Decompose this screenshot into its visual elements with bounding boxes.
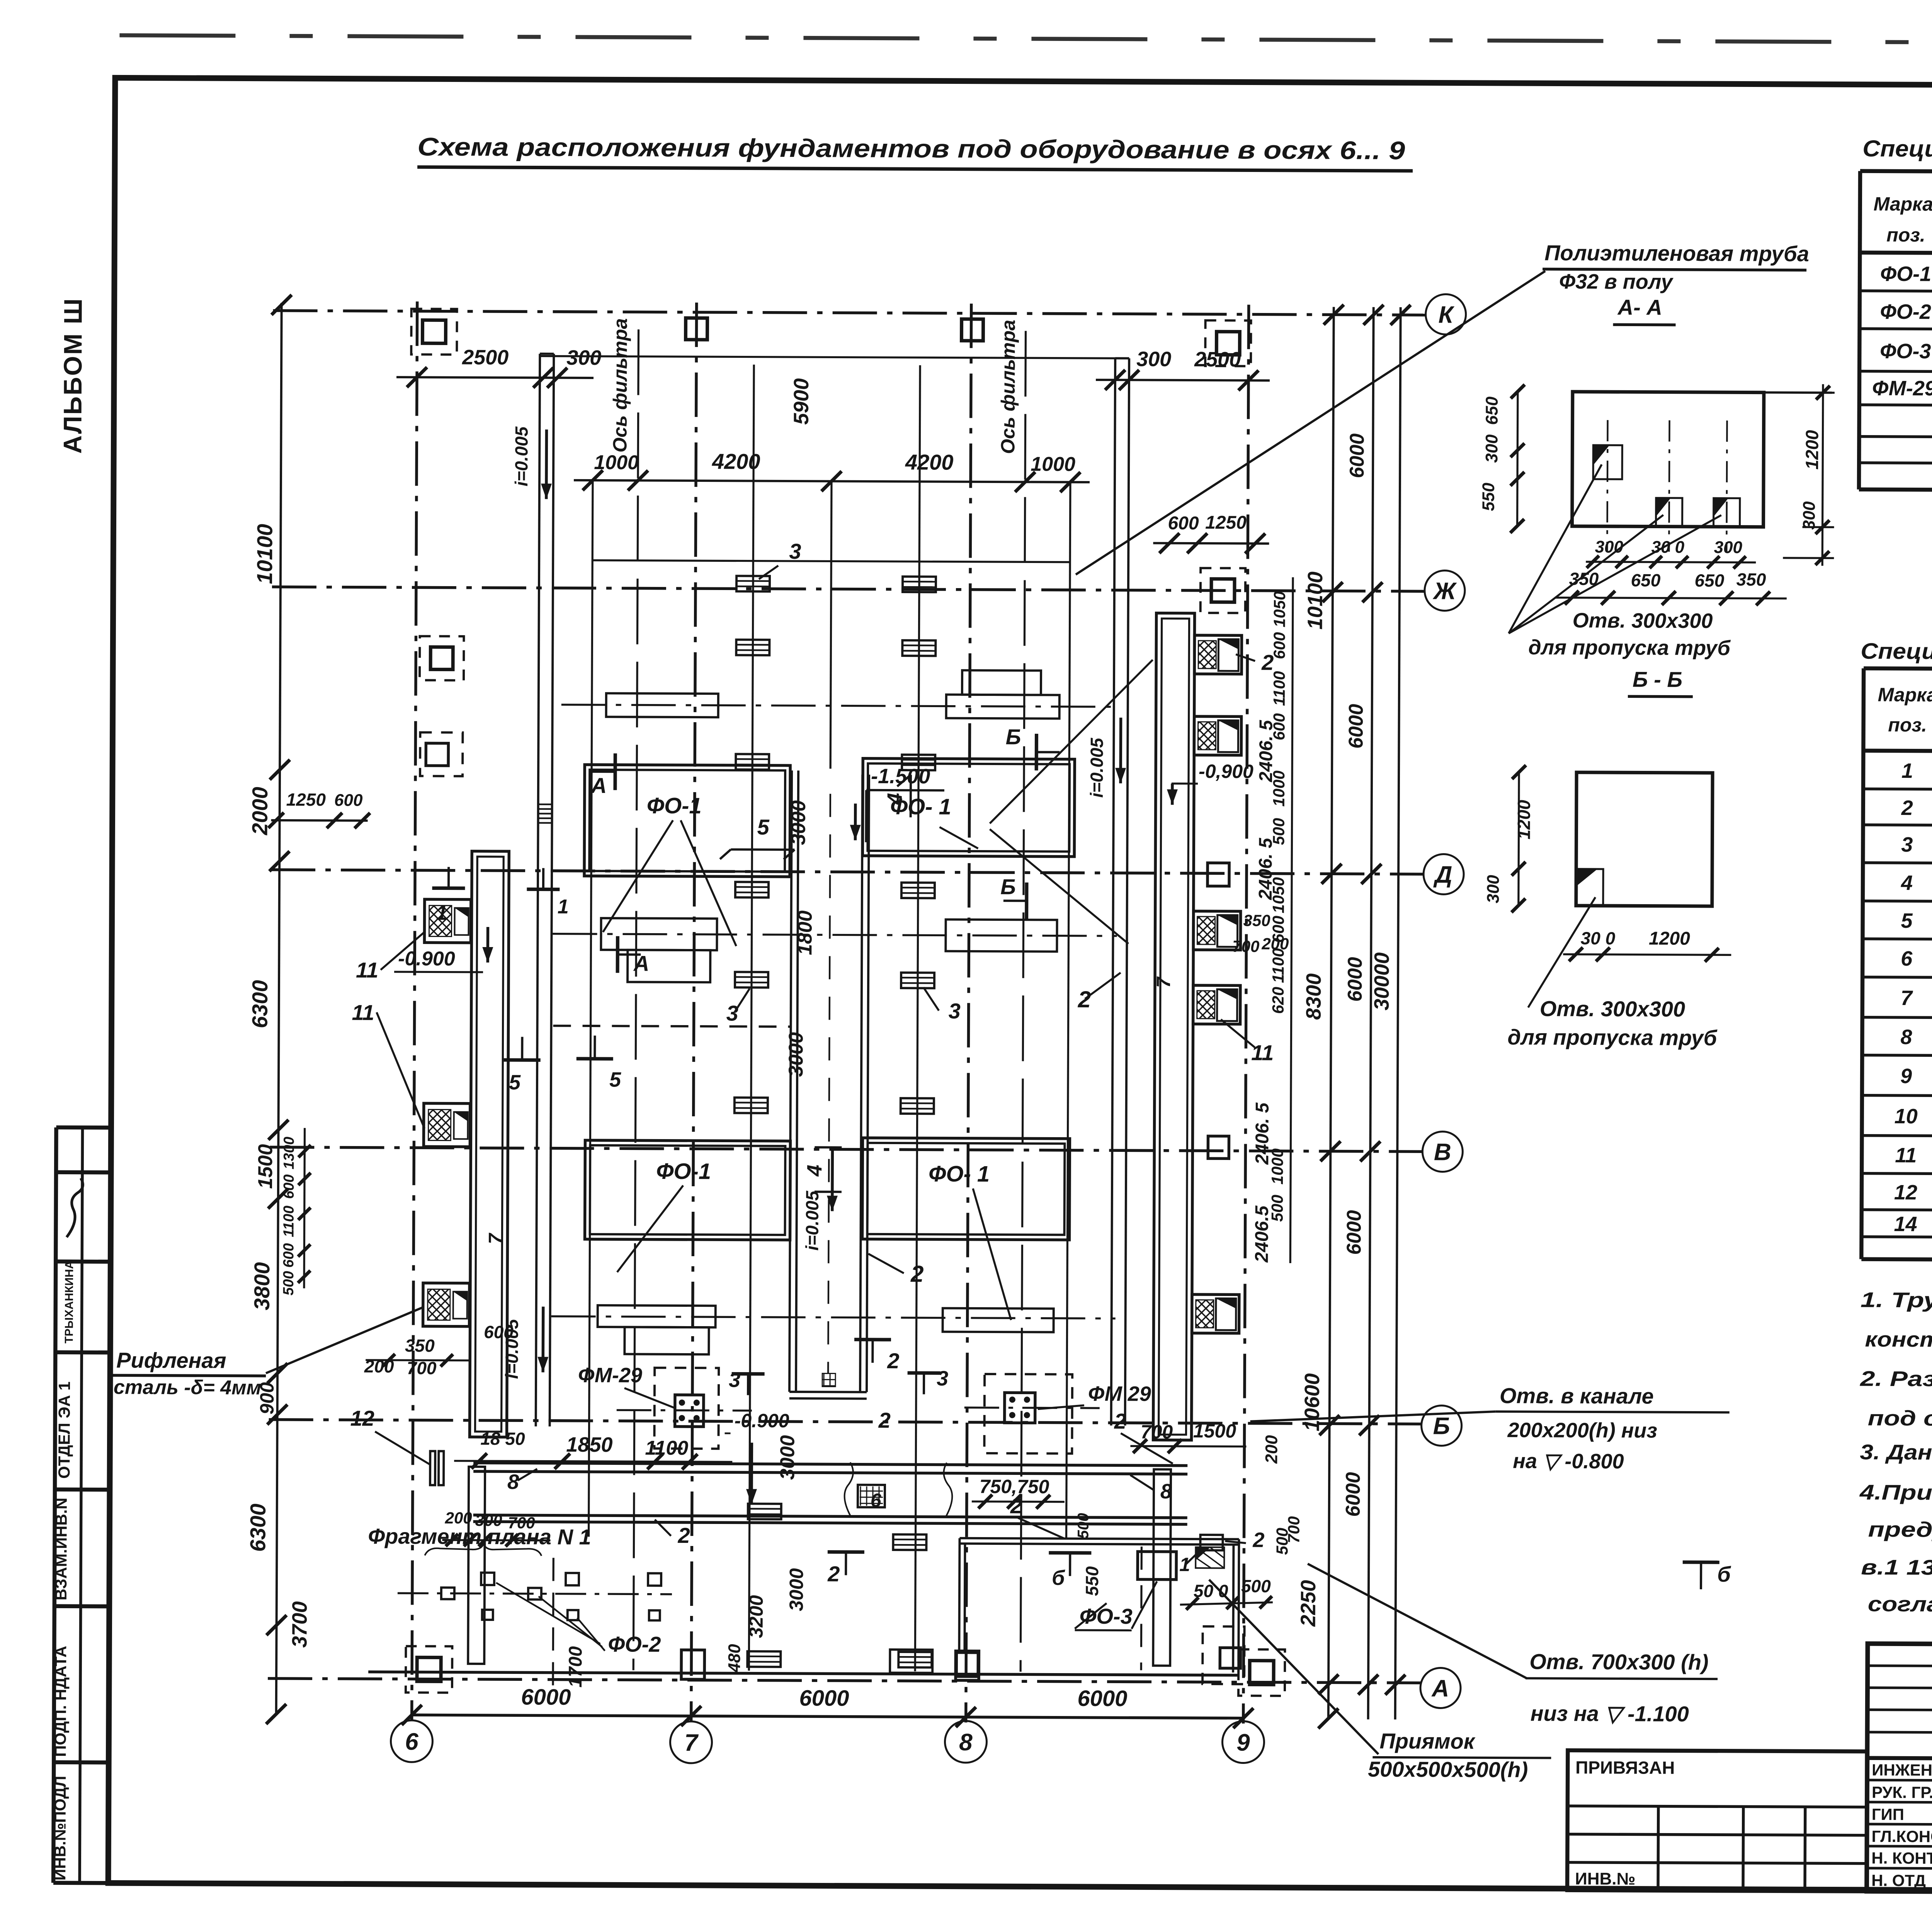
- svg-text:4200: 4200: [905, 450, 954, 474]
- svg-text:2: 2: [677, 1523, 690, 1548]
- svg-text:6300: 6300: [248, 980, 272, 1028]
- svg-text:под оборудование уточняется: под оборудование уточняется при получени…: [1868, 1406, 1932, 1433]
- left building wall lower part: [468, 1467, 485, 1664]
- svg-text:7: 7: [485, 1233, 506, 1244]
- svg-text:1100: 1100: [1269, 948, 1287, 983]
- svg-text:11: 11: [1895, 1144, 1917, 1167]
- svg-text:низ на ▽ -1.100: низ на ▽ -1.100: [1531, 1701, 1689, 1726]
- svg-text:7: 7: [684, 1730, 699, 1756]
- top-right chain 300 2500: [1096, 380, 1270, 381]
- left channel ladder: [538, 803, 552, 805]
- column square axis8 row K: [961, 319, 983, 341]
- svg-text:Н. КОНТР: Н. КОНТР: [1871, 1849, 1932, 1867]
- hidden edge dashed line: [553, 1026, 790, 1027]
- right building wall: [1153, 613, 1194, 1440]
- column square axis9 row K: [1216, 332, 1240, 355]
- svg-text:1000: 1000: [594, 451, 639, 474]
- svg-text:1800: 1800: [794, 910, 816, 955]
- equipment block bottom center-left: [890, 1650, 932, 1673]
- svg-text:8: 8: [959, 1729, 973, 1756]
- svg-text:5: 5: [609, 1068, 621, 1091]
- bottom dimension line: [412, 1715, 1243, 1718]
- svg-text:Схема расположения фундамент: Схема расположения фундаментов под обору…: [417, 132, 1405, 165]
- svg-text:1: 1: [558, 896, 569, 918]
- svg-text:30 0: 30 0: [1651, 538, 1684, 557]
- svg-text:500: 500: [1075, 1513, 1092, 1539]
- axis circle V: [1422, 1131, 1463, 1172]
- svg-text:10100: 10100: [1304, 571, 1327, 629]
- sheet top scan edge: [119, 35, 1932, 45]
- svg-text:Б: Б: [1433, 1413, 1450, 1439]
- svg-text:ТРЫХАНКИНА: ТРЫХАНКИНА: [63, 1261, 76, 1344]
- tank inner line 1: [749, 365, 754, 1671]
- building bottom edge row A: [368, 1672, 1238, 1675]
- svg-text:2406.5: 2406.5: [1252, 1205, 1272, 1263]
- svg-text:1: 1: [436, 902, 447, 924]
- svg-text:РУК. ГР. /: РУК. ГР. /: [1872, 1783, 1932, 1802]
- svg-text:сталь -δ= 4мм: сталь -δ= 4мм: [114, 1376, 261, 1399]
- chain 600 1250 right: [1153, 543, 1269, 544]
- equipment center line row 3: [551, 1316, 1116, 1319]
- corridor wall left: [789, 770, 792, 1392]
- svg-text:6000: 6000: [799, 1685, 849, 1711]
- FO-3 zone outline top: [960, 1538, 1239, 1539]
- left inner chain line: [304, 1128, 305, 1288]
- svg-text:3: 3: [789, 539, 801, 563]
- svg-text:7: 7: [1901, 986, 1913, 1010]
- svg-text:2250: 2250: [1297, 1580, 1320, 1627]
- right 6000 chain line: [1368, 307, 1374, 1719]
- privyazan box: [1567, 1750, 1867, 1891]
- svg-text:300: 300: [566, 346, 601, 369]
- svg-text:5: 5: [1901, 909, 1913, 932]
- svg-text:3000: 3000: [785, 1032, 807, 1077]
- left wall box 1 hatched: [424, 899, 471, 942]
- svg-text:200х200(h) низ: 200х200(h) низ: [1507, 1418, 1657, 1442]
- FO-3 zone pedestal: [956, 1653, 978, 1677]
- svg-text:350: 350: [1736, 569, 1766, 589]
- svg-text:620: 620: [1269, 987, 1287, 1014]
- section B-B hole leader: [1528, 897, 1595, 1008]
- svg-text:1100: 1100: [1270, 671, 1288, 706]
- equipment block lower left with pedestal: [598, 1305, 716, 1327]
- svg-text:конструкцию пола (см. черте: конструкцию пола (см. чертежи ЭАД): [1865, 1327, 1932, 1353]
- column square axis6 mid1: [430, 647, 453, 669]
- svg-text:Спецификация элементов плана: Спецификация элементов плана на фундамен…: [1861, 639, 1932, 667]
- column square axis6 row K: [422, 320, 446, 343]
- svg-text:6000: 6000: [1342, 1472, 1364, 1517]
- svg-text:650: 650: [1483, 396, 1502, 425]
- title block staff rows: [1867, 1780, 1932, 1781]
- svg-text:2: 2: [878, 1408, 891, 1432]
- label 1 wall left: [432, 867, 465, 888]
- section mark 3 left: [731, 1374, 764, 1395]
- svg-text:11: 11: [1251, 1041, 1274, 1065]
- right wall square row V: [1208, 1136, 1229, 1158]
- svg-text:Ф32 в полу: Ф32 в полу: [1559, 270, 1674, 294]
- pit symbol: [1200, 1535, 1223, 1550]
- section mark b right: [1683, 1562, 1719, 1589]
- svg-text:11: 11: [352, 1000, 374, 1025]
- svg-text:АЛЬБОМ Ш: АЛЬБОМ Ш: [58, 297, 87, 454]
- foundation FO-1 upper right outline: [862, 759, 1075, 857]
- svg-text:2: 2: [887, 1349, 899, 1373]
- otv 700x300 leader: [1307, 1564, 1527, 1678]
- svg-text:3: 3: [1901, 833, 1913, 856]
- section mark 3 right: [907, 1373, 940, 1394]
- svg-text:1200: 1200: [1649, 929, 1690, 949]
- svg-text:ГИП: ГИП: [1872, 1805, 1904, 1823]
- filter axis right: [1020, 331, 1026, 1672]
- svg-text:1: 1: [1901, 759, 1913, 782]
- svg-text:480: 480: [725, 1644, 744, 1673]
- svg-text:1000: 1000: [1268, 1148, 1286, 1185]
- right building wall lower part: [1153, 1469, 1171, 1666]
- svg-text:650: 650: [1695, 570, 1725, 590]
- svg-text:i=0.005: i=0.005: [511, 426, 532, 486]
- svg-text:1200: 1200: [1514, 800, 1534, 840]
- svg-text:Отв. 700х300 (h): Отв. 700х300 (h): [1529, 1649, 1709, 1674]
- svg-text:Отв. 300х300: Отв. 300х300: [1573, 609, 1713, 633]
- svg-text:3: 3: [937, 1367, 948, 1390]
- bottom channel insert 6: [858, 1485, 885, 1507]
- axis 9 line: [1243, 305, 1249, 1724]
- section A-A hole leaders: [1509, 464, 1602, 634]
- svg-text:2: 2: [1261, 650, 1274, 675]
- svg-text:550: 550: [1082, 1566, 1102, 1596]
- svg-text:6: 6: [405, 1728, 418, 1755]
- right mid chain line: [1328, 307, 1334, 1719]
- svg-text:2: 2: [1114, 1409, 1126, 1433]
- svg-text:6000: 6000: [1343, 1210, 1365, 1255]
- svg-text:ФО-2: ФО-2: [608, 1632, 661, 1656]
- svg-text:2: 2: [1010, 1493, 1022, 1518]
- bottom channel lower edge: [473, 1515, 1187, 1518]
- svg-text:12: 12: [1894, 1181, 1917, 1204]
- left building wall: [469, 851, 509, 1437]
- tank wall line left: [589, 482, 593, 1537]
- left wall box 2 hatched: [423, 1103, 470, 1146]
- svg-text:i=0.005: i=0.005: [802, 1190, 822, 1250]
- svg-text:2: 2: [910, 1261, 924, 1287]
- svg-text:1300: 1300: [281, 1137, 297, 1170]
- svg-text:ФО-3: ФО-3: [1880, 340, 1931, 363]
- svg-text:Приямок: Приямок: [1379, 1729, 1476, 1753]
- svg-text:б: б: [1717, 1562, 1731, 1586]
- svg-text:Б: Б: [1000, 874, 1016, 899]
- FO-3 zone outline left: [959, 1538, 959, 1653]
- section A-A hole centerlines: [1607, 420, 1607, 551]
- equipment block lower right: [943, 1308, 1054, 1332]
- column square axis9 bottom: [1250, 1661, 1274, 1685]
- svg-text:300: 300: [1482, 434, 1501, 463]
- section A-A hole 2: [1656, 498, 1682, 527]
- foundation FO-1 lower right outline: [862, 1138, 1070, 1240]
- corridor bottom closure: [789, 1391, 867, 1393]
- plates pos.3 right column: [903, 577, 936, 592]
- svg-text:18 50: 18 50: [480, 1429, 525, 1449]
- section mark 5 mid: [577, 1036, 613, 1059]
- svg-text:12: 12: [350, 1406, 374, 1430]
- svg-text:2: 2: [827, 1561, 840, 1586]
- svg-text:14: 14: [1894, 1213, 1917, 1236]
- axis Д line: [271, 870, 1424, 874]
- svg-text:Фрагмент плана N 1: Фрагмент плана N 1: [368, 1524, 591, 1549]
- svg-text:1200: 1200: [1802, 430, 1822, 469]
- section mark B upper: [1036, 734, 1060, 770]
- svg-text:ФО-1: ФО-1: [656, 1159, 711, 1184]
- svg-text:1850: 1850: [566, 1433, 612, 1456]
- tank center line: [830, 483, 832, 769]
- svg-text:Б - Б: Б - Б: [1633, 667, 1682, 691]
- corridor wall right: [860, 775, 862, 1392]
- svg-text:8: 8: [1900, 1026, 1912, 1049]
- svg-text:ИНВ.№ПОДЛ: ИНВ.№ПОДЛ: [51, 1776, 69, 1881]
- svg-text:10600: 10600: [1301, 1373, 1324, 1431]
- axis circle 6: [391, 1720, 432, 1762]
- svg-text:ИНВ.№: ИНВ.№: [1575, 1869, 1636, 1889]
- axis circle Zh: [1425, 570, 1465, 611]
- left wall box 3 hatched: [423, 1283, 469, 1326]
- svg-text:ФО-1: ФО-1: [1880, 262, 1931, 286]
- svg-text:6: 6: [1901, 947, 1913, 970]
- right wall column square: [1211, 579, 1235, 602]
- svg-text:11: 11: [356, 958, 378, 982]
- svg-text:2: 2: [1078, 986, 1091, 1012]
- otv v kanale leader: [1250, 1411, 1496, 1422]
- stamp label signature: [66, 1178, 83, 1237]
- plates pos.3 lower: [748, 1504, 781, 1519]
- axis Ж line: [272, 587, 1425, 591]
- svg-text:3200: 3200: [745, 1595, 767, 1638]
- right wall lower square: [1207, 863, 1229, 886]
- FM-29 center line: [617, 1410, 752, 1410]
- foundation FM-29 right: [984, 1374, 1072, 1454]
- FO-3 zone dashed line: [1141, 1547, 1141, 1670]
- left chain 1250 600: [271, 819, 368, 822]
- fragment plan center line: [398, 1593, 672, 1594]
- svg-text:4: 4: [883, 793, 906, 805]
- axis К line: [273, 311, 1426, 315]
- svg-text:300: 300: [1595, 537, 1624, 556]
- svg-text:3: 3: [949, 999, 961, 1023]
- svg-text:200: 200: [1262, 1435, 1281, 1464]
- svg-text:Б: Б: [1006, 724, 1021, 749]
- right wall box 4 hatched: [1193, 985, 1240, 1024]
- svg-text:К: К: [1438, 301, 1454, 328]
- svg-text:А: А: [1431, 1675, 1449, 1702]
- equipment block row Zh-D left: [606, 693, 718, 717]
- svg-text:3. Данный лист см. совместно: 3. Данный лист см. совместно с листами К…: [1860, 1440, 1932, 1466]
- column square axis8 bottom: [956, 1651, 979, 1680]
- svg-text:8300: 8300: [1302, 973, 1325, 1020]
- svg-text:6000: 6000: [1346, 434, 1368, 478]
- svg-text:ФО-3: ФО-3: [1080, 1604, 1133, 1629]
- svg-text:1250: 1250: [286, 789, 326, 810]
- svg-text:1000: 1000: [1031, 453, 1075, 475]
- FO-3 rect: [1138, 1551, 1176, 1579]
- svg-text:ПРИВЯЗАН: ПРИВЯЗАН: [1575, 1757, 1675, 1778]
- svg-text:10: 10: [1895, 1105, 1918, 1128]
- axis circle 7: [670, 1721, 712, 1763]
- riflenaya steel leader: [266, 1306, 424, 1374]
- svg-text:А: А: [633, 951, 650, 975]
- axis 6 line: [412, 301, 417, 1720]
- pipe leader line: [1076, 269, 1545, 577]
- svg-text:б: б: [1052, 1566, 1065, 1590]
- pryamok leader: [1208, 1580, 1379, 1754]
- section mark A lower: [617, 936, 641, 973]
- right 30000 chain line: [1395, 307, 1401, 1719]
- axis А line: [268, 1679, 1421, 1683]
- tank wall line right: [1066, 484, 1070, 1539]
- svg-text:9: 9: [1236, 1729, 1250, 1756]
- svg-text:500: 500: [281, 1271, 297, 1296]
- svg-text:Ось фильтра: Ось фильтра: [609, 318, 631, 452]
- svg-text:5900: 5900: [790, 378, 813, 425]
- left dimension chain line: [276, 303, 282, 1715]
- tank inner line 2: [915, 365, 920, 1671]
- svg-text:350: 350: [1243, 912, 1270, 930]
- tank top edge: [540, 356, 1129, 359]
- svg-text:8: 8: [1160, 1480, 1172, 1503]
- column square axis7 row K: [685, 318, 707, 340]
- svg-text:2. Разбивка отверстий и за: 2. Разбивка отверстий и закладных в фунд…: [1860, 1367, 1932, 1393]
- svg-text:1050: 1050: [1270, 591, 1289, 628]
- svg-text:4.При устройстве бетонной п: 4.При устройстве бетонной подготовки пол…: [1859, 1480, 1932, 1507]
- svg-text:А: А: [590, 773, 607, 798]
- section A-A slab: [1572, 392, 1764, 527]
- equipment block upper right: [946, 920, 1057, 952]
- svg-text:поз.: поз.: [1886, 224, 1925, 246]
- section mark 5 left: [504, 1037, 541, 1060]
- axis 7 line: [691, 303, 697, 1721]
- equipment center line row 1: [561, 705, 1114, 707]
- svg-text:7: 7: [1153, 976, 1174, 988]
- svg-text:-0.900: -0.900: [398, 947, 455, 970]
- svg-text:Марка: Марка: [1878, 684, 1932, 706]
- svg-text:300: 300: [1800, 501, 1819, 530]
- svg-text:-0,900: -0,900: [1199, 760, 1253, 782]
- svg-text:600: 600: [281, 1174, 297, 1199]
- svg-text:на ▽ -0.800: на ▽ -0.800: [1513, 1449, 1624, 1473]
- right wall box 5 hatched: [1192, 1294, 1239, 1333]
- svg-text:30 0: 30 0: [1581, 928, 1616, 948]
- svg-text:5: 5: [757, 815, 769, 839]
- right inner chain line: [1290, 577, 1293, 1263]
- foundation FO-1 lower left outline: [585, 1140, 790, 1240]
- section mark 2 bottom: [828, 1552, 864, 1575]
- svg-text:6000: 6000: [1077, 1686, 1127, 1711]
- svg-text:8: 8: [507, 1470, 519, 1493]
- svg-text:500: 500: [1241, 1576, 1271, 1596]
- section mark 2 mid: [854, 1340, 891, 1363]
- svg-text:Марка,: Марка,: [1874, 193, 1932, 215]
- svg-text:Ж: Ж: [1432, 578, 1457, 604]
- right wall box 3 hatched: [1193, 911, 1240, 950]
- svg-text:6300: 6300: [245, 1503, 270, 1552]
- svg-text:300: 300: [1714, 538, 1743, 557]
- svg-text:300: 300: [1484, 875, 1503, 903]
- right wall box 2 hatched: [1194, 716, 1241, 755]
- svg-text:650: 650: [1631, 570, 1661, 590]
- column square axis7 bottom: [681, 1650, 704, 1679]
- svg-text:2500: 2500: [462, 346, 509, 369]
- svg-text:поз.: поз.: [1888, 714, 1927, 736]
- svg-text:Спецификация на фундаменты: Спецификация на фундаменты под оборудова…: [1862, 136, 1932, 164]
- corridor grid insert: [822, 1373, 835, 1386]
- fragment squares row3: [482, 1610, 493, 1620]
- svg-text:2000: 2000: [247, 787, 272, 835]
- right channel slope arrow: [1119, 718, 1122, 783]
- svg-text:ФО-1: ФО-1: [647, 793, 702, 819]
- corridor center dashed line: [828, 794, 830, 1373]
- svg-text:Полиэтиленовая труба: Полиэтиленовая труба: [1544, 240, 1809, 266]
- svg-text:А- А: А- А: [1617, 295, 1662, 319]
- svg-text:ФМ-29: ФМ-29: [1872, 377, 1932, 400]
- section B-B left dim line: [1519, 772, 1519, 905]
- axis circle B: [1421, 1405, 1461, 1446]
- svg-text:2: 2: [1901, 796, 1913, 820]
- svg-text:2: 2: [1252, 1529, 1264, 1552]
- top-left chain 2500 300: [396, 377, 594, 378]
- svg-text:1500: 1500: [254, 1144, 277, 1189]
- equipment block row Zh-D right with pedestal: [962, 670, 1041, 695]
- axis В line: [270, 1147, 1423, 1151]
- corridor slope arrow: [831, 1149, 834, 1211]
- title block outer: [1867, 1644, 1932, 1895]
- right channel wall: [1111, 358, 1116, 1425]
- svg-text:9: 9: [1900, 1065, 1912, 1088]
- left wall dashed recess: [420, 732, 463, 776]
- svg-text:3800: 3800: [250, 1262, 274, 1310]
- section mark b bottom: [1049, 1553, 1091, 1576]
- svg-text:4: 4: [1901, 871, 1913, 895]
- svg-text:согласно с расположением их: согласно с расположением их на листах КМ…: [1868, 1592, 1932, 1619]
- svg-text:ФО- 1: ФО- 1: [929, 1161, 990, 1187]
- svg-text:ФМ-29: ФМ-29: [578, 1364, 642, 1387]
- svg-text:-0.900: -0.900: [735, 1410, 789, 1432]
- axis 8 line: [966, 304, 971, 1723]
- svg-text:предусмотреть закладные дета: предусмотреть закладные детали МН 117-6 …: [1868, 1517, 1932, 1544]
- section A-A hole 1: [1593, 445, 1622, 479]
- svg-text:1: 1: [1179, 1554, 1190, 1575]
- table 1 grid: [1860, 171, 1932, 175]
- svg-text:Д: Д: [1433, 861, 1452, 888]
- table 2 grid: [1864, 668, 1932, 672]
- svg-text:6: 6: [871, 1490, 882, 1511]
- axis circle 9: [1222, 1721, 1264, 1763]
- svg-text:500х500х500(h): 500х500х500(h): [1368, 1757, 1528, 1782]
- svg-text:ГЛ.КОНСТ: ГЛ.КОНСТ: [1871, 1827, 1932, 1846]
- svg-text:700: 700: [1284, 1516, 1303, 1543]
- svg-text:В: В: [1434, 1139, 1451, 1165]
- svg-text:350: 350: [405, 1335, 435, 1355]
- svg-text:5: 5: [509, 1071, 521, 1094]
- section B-B hole: [1576, 869, 1603, 906]
- fragment vertical dash: [553, 1558, 553, 1693]
- svg-text:3: 3: [726, 1001, 738, 1025]
- svg-text:6000: 6000: [1345, 704, 1367, 749]
- svg-text:6000: 6000: [521, 1684, 571, 1709]
- svg-text:i=0.005: i=0.005: [1087, 737, 1107, 798]
- svg-text:в.1 130-05 для установки по: в.1 130-05 для установки под металлическ…: [1861, 1555, 1932, 1582]
- section mark 1 wall: [527, 868, 560, 889]
- bottom channel upper edge: [473, 1463, 1187, 1466]
- tank internal wall line: [592, 560, 1070, 562]
- left channel slope arrow top: [545, 430, 548, 499]
- axis circle K: [1425, 294, 1466, 334]
